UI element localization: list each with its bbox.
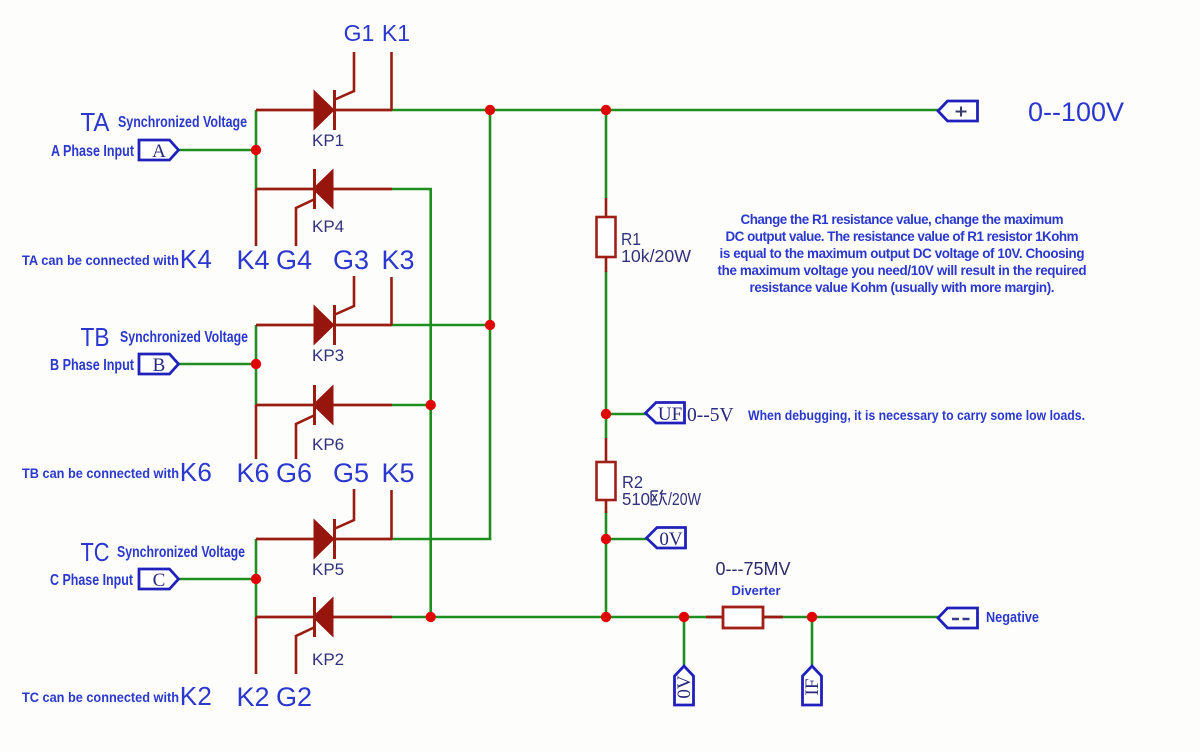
- svg-text:K3: K3: [381, 245, 414, 275]
- wire: left bus TA vertical: [255, 110, 258, 189]
- port 0V mid: [647, 528, 686, 551]
- svg-text:0--5V: 0--5V: [687, 405, 734, 426]
- svg-text:0--100V: 0--100V: [1028, 97, 1124, 127]
- wire: left bus TC vertical: [255, 539, 258, 617]
- svg-text:K2: K2: [236, 682, 269, 712]
- note paragraph about R1: [718, 212, 1087, 295]
- resistor R1: [597, 198, 616, 272]
- svg-text:KP4: KP4: [312, 217, 344, 236]
- junction node A input: [251, 145, 261, 155]
- wire: KP5 cathode row green: [392, 538, 491, 541]
- svg-text:G3: G3: [333, 245, 369, 275]
- svg-text:TB can be connected with: TB can be connected with: [22, 465, 179, 481]
- svg-text:TB: TB: [81, 322, 110, 352]
- junction node C input: [251, 574, 261, 584]
- junction IF drop: [807, 612, 817, 622]
- junction R column bottom: [601, 612, 611, 622]
- svg-text:K6: K6: [180, 457, 213, 487]
- thyristor KP2: [256, 597, 392, 674]
- svg-text:IF: IF: [802, 679, 823, 696]
- junction 0V node: [601, 534, 611, 544]
- resistor R2: [597, 438, 616, 513]
- svg-text:Synchronized Voltage: Synchronized Voltage: [120, 329, 248, 346]
- wire: 0V stub green: [606, 538, 648, 541]
- svg-text:Synchronized Voltage: Synchronized Voltage: [117, 544, 245, 561]
- wire: KP1 cathode row green: [392, 109, 939, 112]
- svg-text:/20W: /20W: [668, 489, 701, 509]
- svg-text:K4: K4: [236, 245, 269, 275]
- svg-text:G5: G5: [333, 458, 369, 488]
- svg-text:A Phase Input: A Phase Input: [51, 143, 135, 160]
- svg-text:KP1: KP1: [312, 131, 344, 150]
- svg-text:510: 510: [622, 489, 650, 509]
- svg-text:0V: 0V: [674, 675, 695, 699]
- svg-text:10k/20W: 10k/20W: [621, 246, 691, 266]
- port UF: [646, 403, 685, 426]
- svg-text:KP2: KP2: [312, 650, 344, 669]
- svg-text:KP5: KP5: [312, 560, 344, 579]
- wire: KP6 anode green segment: [392, 404, 432, 407]
- junction positive bus top: [485, 105, 495, 115]
- svg-text:G1: G1: [344, 20, 375, 46]
- svg-text:C: C: [153, 570, 166, 591]
- wire: KP4 anode green segment: [392, 188, 432, 191]
- svg-text:B: B: [153, 355, 166, 376]
- port B: [139, 354, 179, 376]
- svg-text:K1: K1: [382, 20, 410, 46]
- svg-text:TA can be connected with: TA can be connected with: [22, 252, 179, 268]
- wire: R column R1 to UF green: [605, 271, 608, 438]
- wire: A phase input to left bus: [179, 149, 256, 152]
- junction negative bus bottom: [426, 612, 436, 622]
- svg-text:TC can be connected with: TC can be connected with: [22, 689, 179, 705]
- port negative output: [938, 608, 978, 628]
- svg-text:0---75MV: 0---75MV: [715, 559, 790, 579]
- svg-text:When debugging, it is necessar: When debugging, it is necessary to carry…: [748, 407, 1085, 423]
- resistor diverter shunt: [706, 607, 783, 628]
- port 0V bottom: [674, 666, 695, 705]
- svg-text:K2: K2: [180, 681, 213, 711]
- svg-text:G4: G4: [276, 245, 312, 275]
- svg-text:0V: 0V: [659, 529, 683, 550]
- svg-text:resistance value Kohm (usually: resistance value Kohm (usually with more…: [750, 280, 1055, 295]
- svg-text:KP3: KP3: [312, 346, 344, 365]
- junction node B input: [251, 359, 261, 369]
- wire: C phase input to left bus: [179, 578, 256, 581]
- junction 0V drop: [679, 612, 689, 622]
- thyristor KP3: [256, 276, 392, 345]
- wire: positive bus vertical: [489, 110, 492, 540]
- svg-text:K6: K6: [236, 458, 269, 488]
- wire: negative bus vertical: [429, 189, 432, 617]
- junction KP6 anode: [426, 400, 436, 410]
- wire: R column top green: [605, 110, 608, 198]
- svg-text:A: A: [152, 141, 166, 162]
- svg-text:B Phase Input: B Phase Input: [50, 357, 135, 374]
- thyristor KP5: [256, 489, 392, 559]
- wire: bottom negative row green: [392, 616, 939, 619]
- svg-text:G6: G6: [276, 458, 312, 488]
- svg-text:C Phase Input: C Phase Input: [50, 572, 134, 589]
- port IF bottom: [802, 666, 823, 705]
- thyristor KP1: [256, 52, 392, 130]
- junction R column top: [601, 105, 611, 115]
- port A: [139, 140, 179, 162]
- port C: [139, 569, 179, 591]
- junction UF node: [601, 409, 611, 419]
- svg-text:K5: K5: [381, 458, 414, 488]
- wire: left bus TB vertical: [255, 325, 258, 405]
- svg-text:TC: TC: [81, 537, 110, 567]
- svg-text:Diverter: Diverter: [732, 583, 781, 598]
- wire: UF stub green: [606, 413, 647, 416]
- svg-text:the maximum voltage you need/1: the maximum voltage you need/10V will re…: [718, 263, 1087, 278]
- thyristor KP4: [256, 169, 392, 246]
- svg-text:TA: TA: [81, 107, 111, 137]
- wire: KP3 cathode row green: [392, 324, 490, 327]
- wire: 0V bottom drop green: [683, 617, 686, 667]
- svg-text:is equal to the maximum output: is equal to the maximum output DC voltag…: [720, 246, 1085, 261]
- wire: R column R2 to bottom green: [605, 511, 608, 617]
- svg-text:UF: UF: [658, 404, 682, 425]
- wire: B phase input to left bus: [179, 363, 256, 366]
- svg-text:Negative: Negative: [986, 609, 1039, 626]
- svg-text:DC output value. The resistanc: DC output value. The resistance value of…: [726, 229, 1079, 244]
- svg-text:G2: G2: [276, 682, 312, 712]
- svg-text:K4: K4: [180, 244, 213, 274]
- svg-text:Change the R1 resistance value: Change the R1 resistance value, change t…: [741, 212, 1064, 227]
- svg-text:Synchronized Voltage: Synchronized Voltage: [118, 114, 247, 131]
- thyristor KP6: [256, 385, 392, 459]
- junction KP3 cathode: [485, 320, 495, 330]
- svg-text:KP6: KP6: [312, 435, 344, 454]
- port plus output: [938, 101, 978, 121]
- wire: IF bottom drop green: [811, 617, 814, 667]
